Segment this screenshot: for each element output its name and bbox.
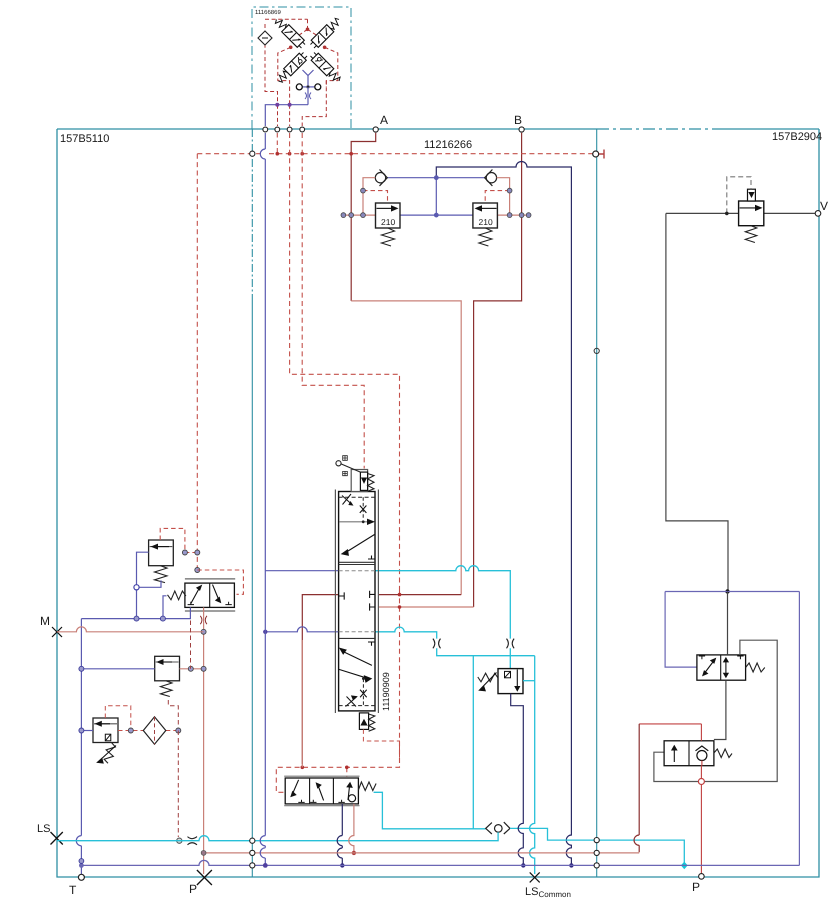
directional valve DV1 body: [185, 583, 235, 607]
pilot dashed gray RV-V: [727, 177, 751, 214]
svg-text:B: B: [514, 113, 522, 127]
pilot dashed below bottom actuator: [363, 729, 399, 762]
DV1 right cell arrow: [213, 585, 221, 603]
spring DV1 left: [167, 591, 185, 600]
port B circle: [519, 127, 524, 132]
port circle x=277: [275, 127, 280, 132]
UV right cell double arrow: [724, 658, 728, 677]
solenoid valve SV3 (lower-left, rotated): [275, 51, 309, 85]
restrictor on x=510.3: [507, 639, 515, 649]
wire blue relief to bus: [137, 552, 149, 618]
svg-text:157B5110: 157B5110: [60, 133, 109, 145]
node dots CV2: [507, 188, 512, 193]
svg-text:T: T: [69, 883, 77, 897]
pilot dashed x=398 lower run: [276, 590, 399, 792]
pilot dashed staircase x=302 to x=364: [302, 133, 364, 469]
valve top transition dashes: [339, 496, 375, 498]
node dot M junction: [201, 629, 206, 634]
bus purple T y=865.4: [81, 860, 799, 865]
orifice X on blue drop: [307, 87, 309, 105]
spring adjustable RVC: [478, 673, 498, 682]
relief valve RV2 210: [473, 203, 498, 228]
wire salmon M line: [57, 627, 204, 632]
blocked T mid left: [339, 592, 344, 599]
closed-X symbol bottom: [360, 690, 367, 697]
wire purple x=265 drop with jumps: [260, 133, 265, 865]
svg-text:157B2904: 157B2904: [772, 131, 822, 143]
BV cell2 arrow: [316, 783, 323, 800]
pilot dashed to DV1 right end: [197, 570, 243, 594]
arrow line y=521.8: [340, 521, 370, 523]
port LS_Common mark: [530, 872, 540, 882]
filter diamond: [143, 717, 166, 744]
BV cell1 arrow: [291, 780, 299, 797]
shuttle symbol LS: [486, 822, 510, 834]
node dots on blue horizontal: [275, 103, 279, 107]
reducing valve RVC body: [498, 669, 523, 694]
pilot dashed staircase x=290 to x=398: [290, 133, 400, 590]
reducing valve small box: [93, 718, 118, 743]
check valve box left-low: [155, 656, 180, 681]
node dots dashed web: [306, 28, 310, 32]
wire black through UV down: [714, 592, 728, 740]
spring UV right: [746, 663, 765, 672]
node dots CV1: [361, 188, 366, 193]
pilot dashed through filter: [118, 730, 178, 732]
wire cyan LS bus into shuttle bottom: [57, 832, 498, 841]
spring bottom actuator: [369, 714, 375, 731]
blocked T mid right upper: [370, 591, 375, 598]
dashed pilot inside bottom: [362, 679, 364, 706]
wire cyan RVC right stub: [523, 680, 535, 682]
node dots pilot taps: [398, 593, 402, 597]
wire navy bridge line from center to x=571: [436, 162, 571, 866]
node dots pilot crossings: [276, 152, 280, 156]
valve UV body: [697, 655, 746, 680]
blocked T bottom section top-right: [368, 642, 375, 646]
wire cyan x=534.7 down to LS_Common: [530, 656, 535, 874]
port T circle: [78, 874, 84, 880]
wire purple loop top: [665, 592, 799, 866]
valve BV body: [285, 778, 358, 804]
wire blue between check valves: [387, 177, 485, 179]
wire teal vertical x=597 (border to bottom): [596, 129, 598, 877]
wire cyan from BV spring: [374, 792, 486, 829]
pilot dashed CV2 to RV2: [485, 191, 509, 203]
wire cyan drop from reducing valve area: [472, 656, 474, 829]
spring below check box: [161, 681, 173, 697]
solenoid valve SV4 (lower-right, rotated): [309, 51, 343, 85]
port P circle bottom right: [699, 874, 705, 880]
pilot dashed check spring to filter line: [168, 700, 178, 731]
wire blue spring foot: [137, 580, 162, 587]
directional valve DV1 rails: [185, 579, 235, 611]
solenoid actuator top: [351, 470, 367, 492]
DV1 left cell arrow: [191, 586, 202, 604]
pilot terminal at x=597: [593, 151, 599, 157]
node dot T drop at purple bus: [79, 859, 84, 864]
node circle teal crossing x=252: [250, 151, 255, 156]
pilot dashed filter down to LS: [177, 731, 179, 838]
wire blue DV1 spring drop: [163, 596, 167, 619]
svg-text:M: M: [40, 614, 50, 628]
pilot dashed reducing top loop: [105, 706, 131, 731]
pilot dashed x=277 drop: [276, 133, 278, 154]
spring relief left: [155, 566, 168, 583]
diagonal arrow to dot bottom: [339, 669, 371, 682]
valve side rails: [335, 490, 378, 714]
node dots blue center: [434, 175, 439, 180]
svg-text:210: 210: [381, 217, 395, 227]
spring LV right: [714, 749, 732, 758]
node cyan diamond on purple bus: [681, 862, 688, 870]
dashed through-line y=631.8 inside: [339, 631, 375, 633]
pilot dashed web top cluster: [265, 19, 338, 126]
wire purple port y=631.8 with bump over x=302.3: [265, 627, 338, 632]
node circle on x=597: [594, 348, 599, 353]
restrictor on x=436.7: [433, 639, 441, 649]
wire red brick drop to bus: [638, 724, 640, 852]
shuttle valve circles: [302, 86, 315, 88]
check valve CV1 (left): [375, 170, 387, 186]
wire blue between 210 valves: [400, 214, 473, 216]
spring RV1: [382, 228, 395, 246]
svg-text:P: P: [692, 880, 700, 894]
port circle x=290: [287, 127, 292, 132]
port circle x=265: [263, 127, 268, 132]
bus salmon P y=852.9: [204, 852, 640, 854]
wire purple feed y=570.7: [265, 570, 338, 572]
port circle x=302: [300, 127, 305, 132]
svg-text:LS: LS: [37, 823, 50, 835]
wire red through LV to P: [700, 761, 703, 874]
valve LV body: [664, 741, 714, 766]
crossed-arrow symbol bottom: [346, 696, 357, 707]
wire salmon around CV2: [497, 178, 529, 215]
dashed through-line y=570.7 inside: [339, 570, 375, 572]
wire gray loop: [654, 640, 777, 781]
valve body 11190909: [339, 492, 375, 711]
long arrow bottom section: [340, 648, 372, 665]
wire teal vertical x=252 (border to bottom): [251, 129, 253, 300]
main enclosure border 157B5110/11216266/157B2904: [57, 129, 819, 877]
wire cyan shuttle right to LS common: [510, 828, 684, 865]
node open dot: [134, 585, 139, 590]
crossed-arrow symbol top: [342, 494, 353, 505]
valve BV rails: [284, 776, 359, 806]
wire navy BV left drop: [341, 804, 343, 861]
pilot dashed relief top loop: [160, 528, 197, 552]
UV left cell arrows: [703, 659, 716, 676]
node dot A-line on pilot: [349, 152, 353, 156]
port M mark: [52, 627, 62, 637]
LV left cell up arrow: [672, 746, 677, 762]
svg-text:11216266: 11216266: [424, 139, 472, 151]
pilot dashed into bottom valve top: [346, 767, 348, 777]
svg-text:V: V: [820, 199, 828, 213]
node circles teal x=252 crossings: [250, 838, 255, 843]
svg-text:11190909: 11190909: [381, 672, 391, 711]
solenoid cap RV-V: [748, 189, 756, 201]
wire blue bus y=618.6: [81, 607, 190, 618]
wire A port down-step: [351, 133, 376, 301]
wire blue to border: [265, 105, 308, 126]
svg-text:P: P: [189, 882, 197, 896]
wire black V-port line: [666, 212, 816, 214]
pilot dashed vertical x=197.3: [196, 154, 198, 570]
node dot purple M-branch: [263, 630, 267, 634]
wire blue center vertical: [435, 178, 437, 215]
wire blue Y from lower valves: [303, 70, 314, 87]
wire salmon BV right drop: [349, 804, 354, 853]
filter diamond top: [258, 31, 272, 45]
wire brick left port y=594.6: [302, 595, 338, 764]
pilot dashed x=190.5 short: [190, 621, 192, 669]
blocked T mid right lower: [370, 603, 375, 610]
relief valve RV1 210: [376, 203, 401, 228]
svg-text:LSCommon: LSCommon: [525, 886, 571, 899]
svg-text:A: A: [380, 113, 388, 127]
diagonal arrow mid-top section: [342, 535, 375, 556]
node junction circle red/gray: [698, 779, 704, 785]
wire blue left drop to T: [76, 619, 81, 874]
port LS mark: [51, 832, 63, 845]
wire salmon pilot drop x=302.3 (lower part): [301, 640, 303, 767]
pilot dashed main horizontal y=153.7: [197, 153, 592, 155]
wire navy RVC outlet drop: [511, 694, 524, 866]
wire black main drop to lower valves: [666, 213, 728, 591]
node dots pilot: [182, 550, 187, 555]
spring RV2: [479, 228, 492, 246]
wire red loop feed: [639, 724, 701, 741]
BV cell3 arrow up: [347, 783, 352, 800]
wire salmon DV1 bottom with orifice: [203, 607, 205, 874]
wire cyan bypass right y=570.7 with bumps: [375, 566, 510, 669]
spring top actuator: [368, 474, 374, 492]
blocked T top section: [368, 556, 375, 560]
wire salmon around CV1: [343, 178, 375, 215]
wire A line lower run to valve: [351, 301, 461, 595]
node circles teal x=597 crossings: [594, 838, 599, 843]
restrictor on LS bus: [188, 837, 198, 845]
spring RV-V: [745, 226, 757, 243]
spring adjustable reducing: [103, 742, 116, 764]
closed-X symbol top: [360, 506, 367, 513]
svg-text:210: 210: [479, 217, 493, 227]
wire salmon check to P drop: [180, 668, 204, 670]
bottom actuator box: [359, 713, 368, 730]
port V circle: [815, 211, 821, 217]
valve bottom transition dashes: [339, 705, 375, 707]
manual lever: [336, 461, 341, 466]
pilot dashed CV1 to RV1: [363, 191, 388, 203]
port A circle: [373, 127, 378, 132]
relief valve left: body: [149, 540, 174, 566]
solenoid valve SV1 (upper-left, rotated): [273, 16, 307, 50]
top dashed enclosure 11166869: [252, 7, 351, 129]
wire cyan tank right y=631.8: [375, 627, 535, 656]
wire blue to reducing box: [81, 730, 93, 732]
node circle on LS line: [177, 838, 182, 843]
spring BV right: [358, 782, 376, 791]
svg-text:11166869: 11166869: [255, 9, 281, 16]
wire blue to check box: [81, 668, 154, 670]
valve section dividers: [339, 562, 375, 638]
check valve CV2 (right): [485, 170, 497, 186]
solenoid valve SV2 (upper-right, rotated): [309, 16, 343, 50]
relief valve RV-V body: [739, 201, 764, 226]
port P mark bottom-left: [197, 870, 212, 885]
LV right cell check: [697, 751, 707, 761]
wire B port down: [474, 133, 522, 607]
